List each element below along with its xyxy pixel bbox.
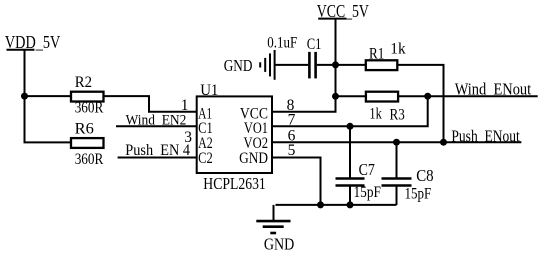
svg-text:R3: R3 bbox=[390, 107, 406, 124]
wire pin 5 GND down to bottom rail bbox=[273, 158, 321, 205]
junction VCC/C1/R1 bbox=[332, 61, 339, 68]
wire R2 to pin 1 of U1 bbox=[104, 96, 197, 112]
wire R3 to Wind_ENout bbox=[398, 95, 538, 97]
svg-text:360R: 360R bbox=[75, 151, 104, 168]
wire ground to C1 bbox=[275, 64, 309, 66]
svg-text:Push EN 4: Push EN 4 bbox=[125, 142, 190, 159]
svg-text:15pF: 15pF bbox=[354, 184, 382, 201]
svg-text:R1: R1 bbox=[369, 45, 384, 62]
ground symbol top-left bbox=[260, 50, 274, 80]
svg-text:7: 7 bbox=[288, 112, 296, 129]
resistor R1 body bbox=[366, 60, 398, 70]
svg-text:C2: C2 bbox=[198, 150, 213, 167]
resistor R6 body bbox=[71, 138, 104, 148]
capacitor C8 bottom lead bbox=[396, 186, 398, 205]
svg-text:3: 3 bbox=[184, 129, 192, 146]
svg-text:GND: GND bbox=[239, 150, 268, 167]
svg-text:VDD_5V: VDD_5V bbox=[5, 32, 61, 52]
junction Push line/C8 bbox=[393, 139, 400, 146]
svg-text:R2: R2 bbox=[75, 74, 92, 91]
svg-text:VCC_5V: VCC_5V bbox=[317, 1, 369, 21]
svg-text:5: 5 bbox=[288, 142, 296, 159]
svg-text:Wind EN2: Wind EN2 bbox=[126, 112, 187, 128]
resistor R3 body bbox=[366, 92, 398, 102]
svg-text:15pF: 15pF bbox=[405, 185, 432, 202]
svg-text:GND: GND bbox=[224, 56, 253, 75]
svg-text:360R: 360R bbox=[75, 100, 104, 117]
wire VDD_5V down to R6 row bbox=[25, 50, 72, 143]
capacitor C8 plates bbox=[382, 179, 412, 186]
wire VO2 pin 6 to Push_ENout bbox=[273, 141, 521, 143]
junction VDD/R2 bbox=[21, 93, 28, 100]
capacitor C1 plates bbox=[309, 52, 315, 79]
wire C1 to R1 bbox=[317, 64, 366, 66]
junction VO1/C7 bbox=[347, 123, 354, 130]
optocoupler IC U1 body HCPL2631 bbox=[197, 96, 272, 173]
wire net Push_EN to pin 4 of U1 bbox=[118, 157, 197, 159]
svg-text:0.1uF: 0.1uF bbox=[267, 34, 297, 51]
svg-text:Push ENout: Push ENout bbox=[451, 127, 520, 146]
wire bottom ground rail bbox=[276, 204, 397, 206]
capacitor C7 plates bbox=[336, 179, 365, 186]
svg-text:U1: U1 bbox=[200, 82, 218, 99]
capacitor C7 top lead bbox=[349, 126, 351, 178]
resistor R2 body bbox=[71, 92, 104, 102]
capacitor C7 bottom lead bbox=[349, 186, 351, 205]
svg-text:1k: 1k bbox=[390, 41, 406, 58]
svg-text:C1: C1 bbox=[307, 36, 322, 53]
junction rail/pin5 bbox=[317, 201, 324, 208]
wire VDD_5V to R2 bbox=[25, 95, 72, 97]
capacitor C8 top lead bbox=[396, 142, 398, 178]
wire VCC to R3 bbox=[336, 95, 366, 97]
junction rail/C7 bbox=[347, 201, 354, 208]
svg-text:R6: R6 bbox=[75, 121, 94, 138]
power port VDD_5V bar bbox=[7, 49, 35, 51]
svg-text:Wind ENout: Wind ENout bbox=[455, 80, 532, 99]
svg-text:C7: C7 bbox=[359, 160, 375, 179]
svg-text:HCPL2631: HCPL2631 bbox=[203, 174, 265, 193]
junction Push line/R1 bbox=[440, 139, 447, 146]
svg-text:C8: C8 bbox=[416, 166, 433, 185]
svg-text:1: 1 bbox=[181, 97, 189, 114]
junction VCC/R3 bbox=[332, 93, 339, 100]
wire VCC_5V down to pin 8 bbox=[273, 19, 336, 112]
wire R1 to Push_ENout line bbox=[397, 65, 443, 142]
svg-text:1k: 1k bbox=[369, 106, 382, 123]
ground symbol bottom bbox=[256, 205, 290, 233]
wire Wind line down to VO1 pin 7 bbox=[273, 96, 428, 126]
wire net Wind_EN to pin 2 of U1 bbox=[116, 125, 197, 127]
junction Wind line/R3 bbox=[424, 93, 431, 100]
svg-text:GND: GND bbox=[264, 234, 294, 253]
power port VCC_5V bar bbox=[318, 18, 346, 20]
